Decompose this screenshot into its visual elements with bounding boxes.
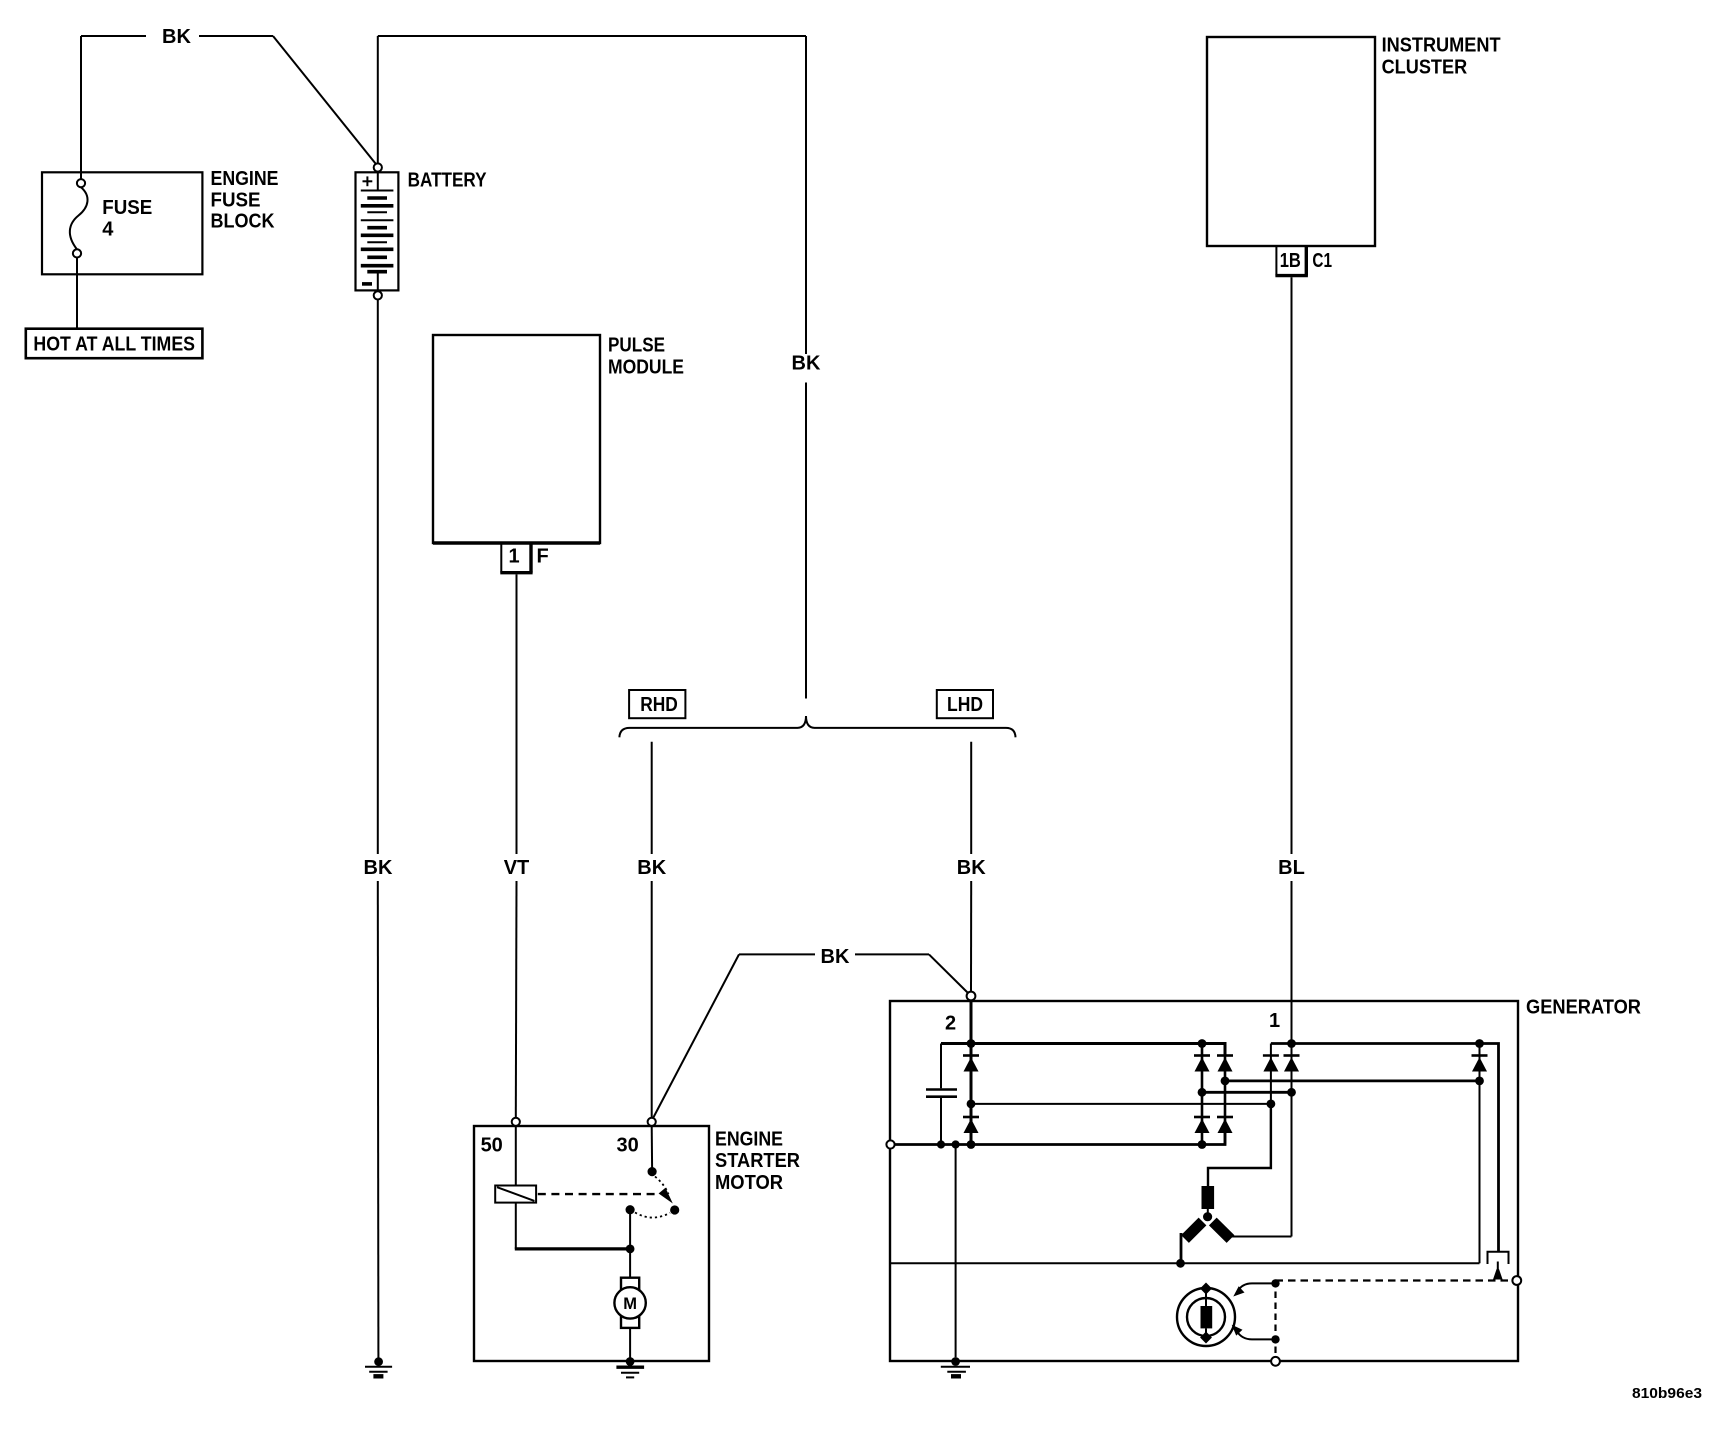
junction dot bus terminal2 — [967, 1039, 976, 1048]
relay actuation arrowhead — [659, 1188, 673, 1204]
svg-text:C1: C1 — [1312, 250, 1332, 272]
svg-text:BK: BK — [792, 353, 821, 375]
regulator contact pointer stem — [1497, 1262, 1499, 1269]
svg-text:F: F — [537, 546, 549, 568]
junction dot phase B column2 — [1198, 1088, 1207, 1097]
junction dot trio bus terminal1 — [1287, 1039, 1296, 1048]
wire BK jumper horizontal left segment — [739, 953, 815, 955]
battery plate 1 long — [361, 190, 394, 192]
stator winding 1 coil rect — [1202, 1186, 1215, 1209]
svg-text:BL: BL — [1278, 857, 1305, 879]
wire BK RHD branch below label — [651, 881, 653, 1118]
wire battery positive stub vertical — [377, 36, 379, 163]
svg-text:BK: BK — [957, 857, 986, 879]
motor M circle — [614, 1287, 645, 1318]
instrument cluster connector 1B box — [1275, 246, 1277, 276]
svg-text:30: 30 — [616, 1134, 638, 1156]
svg-text:1B: 1B — [1280, 250, 1301, 272]
brace splitting BK wire to RHD and LHD — [619, 716, 1015, 737]
svg-text:1: 1 — [1269, 1010, 1280, 1032]
wire BK LHD branch below label — [970, 881, 972, 992]
wire terminal 50 to relay coil — [515, 1126, 517, 1186]
brush upper arrowhead — [1233, 1286, 1244, 1296]
pulse module box — [433, 335, 600, 543]
wire BK vertical drop below label to brace — [805, 383, 807, 699]
battery plate 10 short thick — [367, 255, 387, 259]
engine starter motor box — [474, 1126, 709, 1361]
ground symbol generator bars — [941, 1366, 970, 1368]
junction dot phase A column1 — [967, 1100, 976, 1109]
motor armature rect — [621, 1278, 639, 1328]
svg-text:MOTOR: MOTOR — [715, 1172, 784, 1194]
capacitor C top lead — [940, 1044, 942, 1089]
svg-text:4: 4 — [102, 218, 114, 240]
wire VT from pulse module pin 1 above label — [516, 574, 518, 854]
field circuit terminal circle bottom edge — [1271, 1357, 1280, 1366]
wire from fuse block top to top wire — [80, 36, 82, 179]
wire terminal 30 to fixed contact — [651, 1126, 653, 1168]
brush lower wire — [1237, 1332, 1276, 1340]
rotor inner circle — [1187, 1298, 1225, 1336]
generator box — [890, 1001, 1518, 1361]
svg-text:810b96e3: 810b96e3 — [1632, 1385, 1702, 1402]
RHD option box — [629, 690, 685, 718]
wire BK jumper diagonal to starter terminal 30 — [653, 954, 739, 1117]
fuse F4 top terminal circle — [77, 179, 85, 187]
battery plate 2 short thick — [367, 196, 387, 200]
wire BL below label into generator terminal 1 — [1291, 881, 1293, 1237]
brush upper wire — [1238, 1283, 1276, 1291]
wire relay coil to motor junction — [515, 1203, 517, 1249]
regulator bracket — [1488, 1252, 1509, 1264]
svg-text:BK: BK — [364, 857, 393, 879]
junction dot phase C column3 — [1221, 1077, 1230, 1086]
rotor bottom slip ring diamond — [1200, 1332, 1212, 1344]
rotor bottom stem — [1205, 1328, 1207, 1335]
diode trio output bus — [1271, 1044, 1499, 1252]
wire contact to motor — [629, 1210, 631, 1278]
battery minus sign — [362, 282, 372, 286]
battery negative terminal circle — [374, 291, 382, 299]
fuse F4 bottom terminal circle — [73, 249, 81, 257]
wire motor to ground — [629, 1328, 631, 1358]
trio diode DT1 — [1263, 1054, 1279, 1057]
field circuit terminal circle right edge — [1512, 1276, 1521, 1285]
switch travel dotted arc — [635, 1213, 670, 1218]
wire stator feed elbow from phase A junction — [1208, 1104, 1271, 1186]
starter terminal 50 circle — [512, 1118, 520, 1126]
LHD option box — [937, 690, 993, 718]
svg-text:BK: BK — [162, 26, 191, 48]
svg-text:BK: BK — [821, 946, 850, 968]
capacitor C plates — [926, 1088, 957, 1091]
generator ground lead wire — [955, 1145, 957, 1358]
svg-text:FUSE: FUSE — [102, 197, 152, 219]
switch fixed contact 30 dot — [648, 1167, 657, 1176]
svg-text:FUSE: FUSE — [211, 190, 261, 212]
svg-text:HOT AT ALL TIMES: HOT AT ALL TIMES — [33, 334, 195, 356]
wire diagonal from top wire to battery positive — [273, 36, 376, 164]
wire BK LHD branch below brace — [970, 742, 972, 854]
battery plate 12 short thick — [367, 270, 387, 274]
wire BK top horizontal left segment — [81, 35, 146, 37]
battery positive terminal circle — [374, 163, 382, 171]
switch contact dot output — [626, 1205, 635, 1214]
switch moving arm dotted — [655, 1177, 669, 1195]
wire phase B — [1202, 1091, 1292, 1094]
svg-text:VT: VT — [504, 857, 530, 879]
battery outline box — [356, 172, 399, 290]
wire stator winding2 to field line — [1180, 1233, 1183, 1263]
battery plate 11 long thick — [361, 264, 394, 268]
svg-text:BK: BK — [637, 857, 666, 879]
svg-text:MODULE: MODULE — [608, 357, 684, 379]
svg-text:PULSE: PULSE — [608, 334, 665, 356]
wire phase C — [1225, 1080, 1480, 1083]
battery plate 8 short — [367, 241, 387, 243]
rotor outer slip ring circle — [1177, 1288, 1235, 1346]
relay solenoid coil box — [495, 1186, 536, 1203]
rotor top slip ring diamond — [1200, 1283, 1212, 1295]
starter terminal 30 circle — [648, 1118, 656, 1126]
wire VT below label to starter terminal 50 — [515, 881, 518, 1118]
wire BK top horizontal right of label — [199, 35, 273, 37]
svg-text:ENGINE: ENGINE — [715, 1128, 783, 1150]
ground symbol starter motor : dot — [626, 1357, 635, 1366]
svg-text:BLOCK: BLOCK — [211, 210, 275, 232]
wire BK battery negative down above label — [377, 300, 379, 855]
junction dot relay output — [626, 1245, 635, 1254]
ground symbol battery negative bars — [365, 1366, 392, 1368]
wire BL from cluster connector above label — [1291, 277, 1293, 854]
pulse module connector pin 1 box — [500, 543, 502, 573]
HOT AT ALL TIMES box — [26, 329, 203, 359]
wire BK vertical drop above label — [805, 36, 807, 354]
rotor field coil rect — [1201, 1306, 1213, 1328]
relay actuation dashed line — [538, 1193, 657, 1195]
junction dot bus column1 — [967, 1140, 976, 1149]
stator Y neutral stem — [1207, 1209, 1209, 1214]
wire BK jumper diagonal to generator terminal 2 — [929, 954, 968, 993]
fuse F4 element S-curve — [70, 187, 88, 249]
wire fuse to HOT AT ALL TIMES box — [76, 258, 78, 329]
wire terminal 2 vertical B+ — [970, 1000, 973, 1144]
svg-text:LHD: LHD — [947, 694, 983, 716]
battery plate 4 short — [367, 211, 387, 213]
battery positive internal stem — [377, 172, 379, 190]
battery negative internal stem — [377, 272, 379, 292]
trio diode DT3 — [1472, 1054, 1488, 1057]
svg-text:INSTRUMENT: INSTRUMENT — [1382, 35, 1501, 57]
junction dot phase B right end — [1287, 1088, 1296, 1097]
diode D2 positive phase B — [1194, 1054, 1210, 1057]
relay coil diagonal — [497, 1187, 534, 1201]
junction dot stator on lower line — [1176, 1259, 1185, 1268]
switch contact dot movable — [670, 1205, 679, 1214]
junction dot bus ground lead — [952, 1140, 960, 1148]
svg-text:50: 50 — [481, 1134, 503, 1156]
battery plate 9 long thick — [361, 248, 394, 252]
svg-text:ENGINE: ENGINE — [211, 168, 279, 190]
battery plus sign — [363, 180, 373, 182]
wire stator winding3 to terminal 1 line — [1232, 1236, 1292, 1238]
junction dot phase C right end — [1475, 1077, 1484, 1086]
generator terminal 2 circle — [967, 992, 976, 1001]
rotor top stem — [1205, 1290, 1207, 1306]
diode D5 negative phase B — [1194, 1116, 1210, 1119]
brush upper junction dot — [1271, 1279, 1279, 1287]
stator winding 3 coil bar — [1213, 1222, 1231, 1240]
wire phase A — [971, 1103, 1271, 1105]
trio diode DT3 vertical right — [1479, 1044, 1481, 1264]
capacitor C bottom lead — [940, 1098, 942, 1145]
svg-text:STARTER: STARTER — [715, 1150, 801, 1172]
stator Y junction dot — [1203, 1212, 1212, 1221]
svg-text:CLUSTER: CLUSTER — [1382, 56, 1468, 78]
junction dot bus capacitor — [937, 1140, 945, 1148]
battery plate 3 long thick — [361, 204, 394, 208]
junction dot trio bus right diode — [1475, 1039, 1484, 1048]
svg-text:1: 1 — [508, 546, 519, 568]
svg-text:BATTERY: BATTERY — [408, 169, 488, 191]
rectifier column 3 vertical — [1224, 1044, 1227, 1145]
svg-text:GENERATOR: GENERATOR — [1526, 997, 1642, 1019]
rectifier column 2 vertical — [1201, 1044, 1204, 1145]
brush lower arrowhead — [1232, 1325, 1243, 1336]
wire BK RHD branch below brace — [651, 742, 653, 854]
ground symbol starter motor bars — [616, 1365, 644, 1368]
ground symbol generator : dot — [951, 1357, 960, 1366]
junction dot bus column2 bottom — [1198, 1140, 1207, 1149]
pulse module bottom edge thick — [433, 541, 600, 544]
trio diode DT1 vertical — [1270, 1044, 1272, 1169]
trio diode DT2 on terminal1 line — [1284, 1054, 1300, 1057]
battery plate 7 long thick — [361, 234, 394, 238]
diode D3 positive phase C — [1217, 1054, 1233, 1057]
wire BK battery negative down below label — [377, 881, 380, 1358]
svg-text:2: 2 — [945, 1012, 956, 1034]
stator winding 2 coil bar — [1185, 1222, 1203, 1240]
B+ top bus — [941, 1044, 1225, 1057]
diode D4 negative phase A — [963, 1116, 979, 1119]
battery plate 5 long — [361, 219, 394, 221]
lower horizontal wire to right diode — [891, 1262, 1480, 1264]
svg-text:M: M — [623, 1295, 637, 1313]
ground bus of rectifier — [892, 1132, 1225, 1145]
field dashed vertical wire — [1274, 1281, 1276, 1357]
svg-text:RHD: RHD — [640, 694, 678, 716]
junction dot bus column2 — [1198, 1039, 1207, 1048]
diode D6 negative phase C — [1217, 1116, 1233, 1119]
diode D1 positive phase A — [963, 1054, 979, 1057]
ground symbol battery negative : junction dot — [374, 1357, 383, 1366]
engine fuse block box — [42, 172, 202, 274]
battery plate 6 short thick — [367, 226, 387, 230]
field dashed horizontal wire — [1276, 1279, 1512, 1281]
regulator contact pointer triangle — [1493, 1266, 1503, 1280]
ground bus left terminal circle on box edge — [886, 1140, 894, 1148]
instrument cluster box — [1207, 37, 1375, 246]
wire BK top horizontal toward right — [378, 35, 806, 37]
junction dot phase A right end — [1267, 1100, 1276, 1109]
wire BK jumper horizontal right segment — [855, 953, 929, 955]
brush lower junction dot — [1271, 1335, 1279, 1343]
